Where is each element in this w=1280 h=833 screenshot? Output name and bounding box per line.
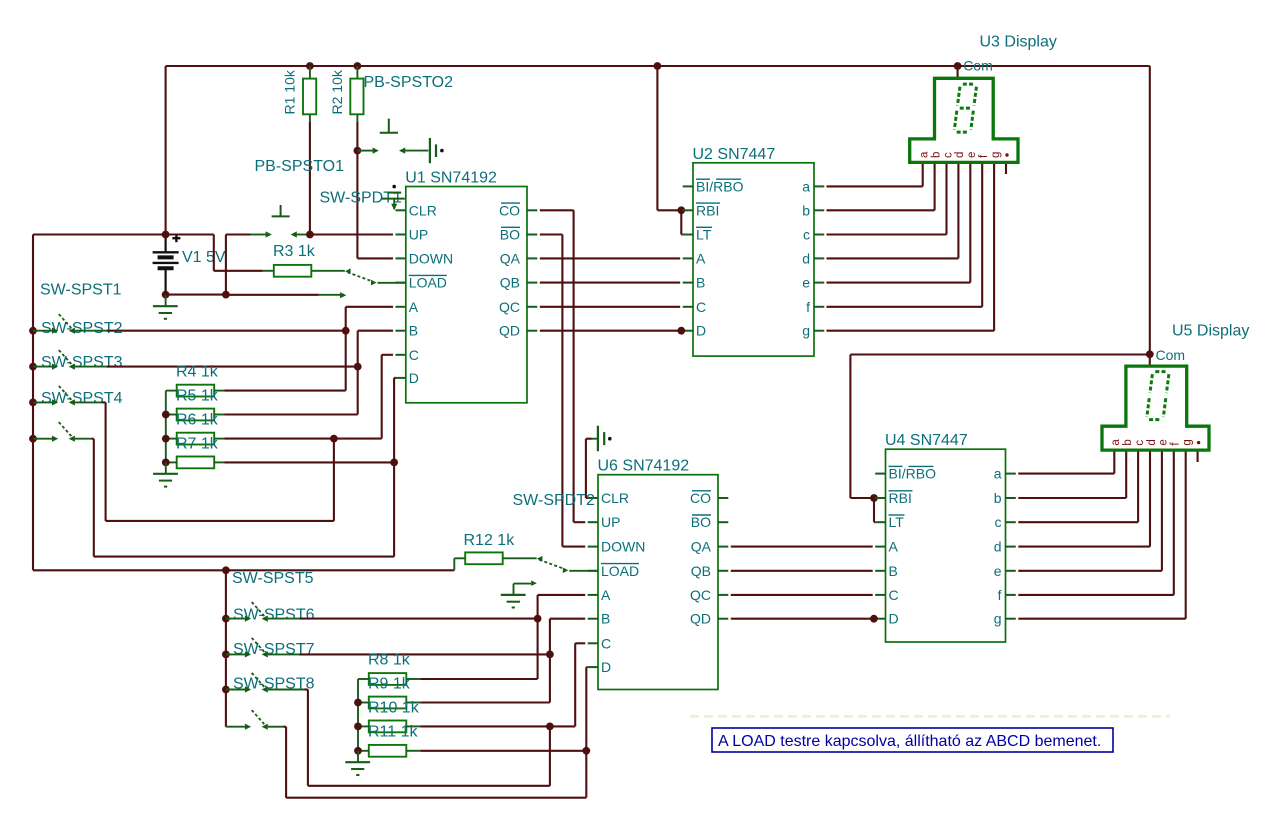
svg-text:b: b [930, 152, 942, 158]
U1 pin QA (right) [527, 257, 537, 259]
ground symbol below R11 [357, 751, 359, 762]
resistor R12 1k [453, 558, 455, 570]
node junction R7 left [162, 459, 170, 467]
node junction R1/PB-SPSTO1/UP [306, 231, 314, 239]
node junction U2-RBI drop/top rail [654, 62, 662, 70]
display U5 dp pin stub [1197, 451, 1199, 462]
U1 pin CO (right) [527, 209, 537, 211]
wire U2 d to display U3 pin d [827, 257, 959, 259]
svg-text:d: d [1146, 439, 1158, 445]
svg-text:f: f [998, 587, 1002, 603]
svg-text:SW-SPST5: SW-SPST5 [232, 570, 314, 587]
wire +5V top rail [166, 65, 1150, 67]
U4 pin c (right) [1006, 521, 1016, 523]
resistor R2 10k [356, 66, 358, 79]
svg-text:QC: QC [690, 587, 711, 603]
svg-text:C: C [409, 347, 419, 363]
wire lower switch bus [225, 570, 227, 726]
resistor R6 1k [177, 433, 215, 445]
ground symbol below R7 [165, 462, 167, 473]
svg-text:R9 1k: R9 1k [368, 675, 411, 692]
wire node B to U1 B [357, 331, 359, 367]
resistor R5 1k [177, 409, 215, 421]
svg-text:QC: QC [499, 299, 520, 315]
svg-text:B: B [601, 611, 610, 627]
svg-text:R4 1k: R4 1k [176, 364, 219, 381]
U2 pin a (right) [814, 185, 824, 187]
U6 pin UP (left) [588, 521, 598, 523]
resistor R11 1k [369, 745, 407, 757]
svg-text:CLR: CLR [409, 202, 437, 218]
U1 pin DOWN (left) [396, 257, 406, 259]
svg-text:d: d [802, 250, 810, 266]
switch SW-SPST4 [29, 435, 37, 443]
U6 pin DOWN (left) [588, 546, 598, 548]
svg-text:CO: CO [499, 202, 520, 218]
wire R1 to UP node [309, 122, 311, 232]
node D2 junction (SPST8/R11) [582, 747, 590, 755]
U6 pin QD (right) [718, 618, 728, 620]
highlight band above note [690, 715, 1170, 718]
wire node A to U1 A [345, 307, 347, 331]
svg-text:c: c [942, 152, 954, 158]
U1 pin A (left) [396, 306, 406, 308]
svg-text:R3 1k: R3 1k [273, 243, 316, 260]
U4 pin g (right) [1006, 618, 1016, 620]
svg-text:U3 Display: U3 Display [980, 34, 1057, 51]
wire U2 f to display U3 pin f [827, 306, 983, 308]
svg-text:R6 1k: R6 1k [176, 412, 219, 429]
svg-text:R5 1k: R5 1k [176, 387, 219, 404]
svg-text:SW-SPST1: SW-SPST1 [40, 282, 122, 299]
wire R8 to node A2 [420, 678, 537, 680]
node junction R11 left [354, 747, 362, 755]
switch arm U6 LOAD (SPDT) [537, 556, 543, 562]
node D junction (SPST4/R7) [390, 459, 398, 467]
node junction lower switch bus [222, 566, 230, 574]
U2 pin RBI (left) [683, 209, 693, 211]
svg-text:UP: UP [409, 227, 428, 243]
wire U4 d to display U5 pin d [1018, 546, 1150, 548]
svg-text:R8 1k: R8 1k [368, 652, 411, 669]
7-seg display U3 outline [910, 78, 1018, 162]
svg-text:a: a [1110, 439, 1122, 446]
node A junction (SPST1/R4/U1-A) [342, 327, 350, 335]
svg-text:DOWN: DOWN [409, 250, 453, 266]
svg-text:g: g [802, 323, 810, 339]
svg-text:Com: Com [963, 58, 993, 74]
svg-text:g: g [990, 152, 1002, 158]
U1 pin LOAD (left) [396, 282, 406, 284]
switch SW-SPST1 [29, 327, 37, 335]
node junction R2/PB-SPSTO2/DOWN [354, 147, 362, 155]
U4 pin LT (left) [875, 521, 885, 523]
wire SW-SPST3 route to node C [102, 401, 106, 403]
svg-text:RBI: RBI [696, 202, 719, 218]
resistor R10 1k [369, 721, 407, 733]
wire R9 to node B2 [420, 701, 550, 703]
wire R7 to node D [225, 461, 392, 463]
U1 pin BO (right) [527, 234, 537, 236]
wire U1 QD to U2 D [540, 330, 680, 332]
wire node C to U1 C [381, 355, 383, 439]
U1 pin CLR (left) [396, 209, 406, 211]
node battery + junction [162, 231, 170, 239]
svg-text:R2 10k: R2 10k [329, 69, 345, 114]
wire battery+ to R3 (down at x=213.8) [166, 233, 214, 235]
wire PB-SPSTO1 to U1 UP [313, 233, 393, 235]
svg-text:R7 1k: R7 1k [176, 435, 219, 452]
node junction R2/top rail [354, 62, 362, 70]
U4 pin d (right) [1006, 546, 1016, 548]
svg-text:g: g [994, 611, 1002, 627]
switch SW-SPDT1 at U1 CLR [392, 185, 396, 189]
U6 pin B (left) [588, 618, 598, 620]
wire U2 c to display U3 pin c [827, 233, 947, 235]
switch SW-SPST8 [226, 726, 245, 728]
U1 pin B (left) [396, 330, 406, 332]
U2 pin f (right) [814, 306, 824, 308]
svg-text:CLR: CLR [601, 490, 629, 506]
switch SW-SPST2 [29, 363, 37, 371]
U1 pin QB (right) [527, 282, 537, 284]
svg-text:A LOAD testre kapcsolva, állít: A LOAD testre kapcsolva, állítható az AB… [718, 733, 1101, 750]
wire R6 to node C [225, 438, 331, 440]
resistor R8 1k [369, 673, 407, 685]
U2 pin B (left) [683, 282, 693, 284]
U2 pin g (right) [814, 330, 824, 332]
svg-text:c: c [1134, 440, 1146, 446]
svg-text:V1 5V: V1 5V [182, 249, 226, 266]
wire U2 b to display U3 pin b [827, 209, 935, 211]
svg-text:a: a [919, 151, 931, 158]
U6 pin LOAD (left) [588, 570, 598, 572]
wire R10 to node C2 [420, 725, 547, 727]
svg-text:f: f [806, 299, 810, 315]
svg-text:a: a [802, 178, 810, 194]
svg-text:UP: UP [601, 514, 620, 530]
svg-text:U1 SN74192: U1 SN74192 [405, 170, 497, 187]
svg-text:D: D [696, 323, 706, 339]
node B junction (SPST2/R5/U1-B) [354, 363, 362, 371]
U6 pin CLR (left) [588, 497, 598, 499]
wire node D2 to U6 D [585, 667, 587, 751]
wire SW-SPST2 to node B [107, 366, 355, 368]
node junction U3 Com [954, 62, 962, 70]
svg-text:D: D [889, 611, 899, 627]
wire U4 g to display U5 pin g [1018, 618, 1185, 620]
wire R4 to node A [225, 390, 346, 392]
wire node C2 to U6 C [574, 643, 576, 726]
node junction U4 RBI [870, 494, 878, 502]
wire node A2 to U6 A [537, 595, 539, 619]
svg-text:PB-SPSTO1: PB-SPSTO1 [255, 158, 345, 175]
svg-text:B: B [696, 275, 705, 291]
U6 pin BO (right) [718, 521, 728, 523]
node junction R9 left [354, 699, 362, 707]
battery V1 5V [165, 235, 167, 253]
svg-text:QB: QB [691, 563, 711, 579]
wire +5V branch to U4 RBI/LT [850, 353, 1149, 355]
svg-text:A: A [889, 539, 899, 555]
node ground rail junction [222, 291, 230, 299]
svg-text:QA: QA [691, 539, 712, 555]
svg-text:D: D [601, 659, 611, 675]
wire U1 QB to U2 B [540, 282, 680, 284]
svg-text:d: d [994, 539, 1002, 555]
ground symbol at battery [165, 295, 167, 307]
wire U2 e to display U3 pin e [827, 282, 971, 284]
svg-text:e: e [994, 563, 1002, 579]
svg-text:e: e [1158, 439, 1170, 445]
push button PB-SPSTO2 [357, 150, 372, 152]
node junction R1/top rail [306, 62, 314, 70]
wire U4 c to display U5 pin c [1018, 521, 1138, 523]
switch SW-SPST6 [222, 651, 230, 659]
wire U3 Com stub [957, 66, 959, 78]
svg-text:e: e [802, 275, 810, 291]
battery + sign [172, 237, 180, 239]
U1 pin D (left) [396, 377, 406, 379]
svg-text:CO: CO [690, 490, 711, 506]
switch arm U1 LOAD (SPDT) [345, 268, 351, 274]
wire SW-SPST6 to node B2 [300, 653, 547, 655]
switch SW-SPST5 [222, 615, 230, 623]
svg-text:LT: LT [889, 514, 905, 530]
node A2 junction (SPST5/R8/U6-A) [534, 615, 542, 623]
wire SW-SPST8 route to node D2 [284, 726, 287, 728]
resistor R4 1k [177, 385, 215, 397]
U1 pin QC (right) [527, 306, 537, 308]
svg-text:SW-SPDT2: SW-SPDT2 [513, 492, 595, 509]
U2 pin A (left) [683, 257, 693, 259]
wire U5 Com stub [1149, 354, 1151, 366]
svg-text:LT: LT [696, 227, 712, 243]
U1 pin C (left) [396, 354, 406, 356]
svg-text:R11 1k: R11 1k [368, 724, 419, 741]
U4 pin f (right) [1006, 594, 1016, 596]
U4 pin A (left) [875, 546, 885, 548]
resistor R3 1k [263, 270, 274, 272]
svg-text:DOWN: DOWN [601, 539, 645, 555]
IC U2 body [693, 163, 814, 356]
wire U6 QA to U4 A [731, 546, 873, 548]
wire U4 e to display U5 pin e [1018, 570, 1162, 572]
svg-text:LOAD: LOAD [409, 275, 447, 291]
U4 pin C (left) [875, 594, 885, 596]
svg-text:BO: BO [691, 514, 711, 530]
ground throw of U6 LOAD switch [514, 583, 532, 585]
svg-text:C: C [696, 299, 706, 315]
svg-text:R12 1k: R12 1k [464, 532, 516, 549]
switch SW-SPST3 [29, 399, 37, 407]
svg-text:b: b [994, 490, 1002, 506]
svg-text:LOAD: LOAD [601, 563, 639, 579]
wire SW-SPST7 route to node C2 [305, 688, 308, 690]
wire U4 a to display U5 pin a [1018, 473, 1114, 475]
svg-text:RBI: RBI [889, 490, 912, 506]
wire battery+ to left bus [33, 233, 166, 235]
svg-text:c: c [995, 514, 1002, 530]
wire U4 f to display U5 pin f [1018, 594, 1174, 596]
svg-text:R10 1k: R10 1k [368, 699, 420, 716]
wire SW-SPST4 route to node D [91, 438, 94, 440]
svg-text:U5 Display: U5 Display [1172, 323, 1249, 340]
svg-text:C: C [889, 587, 899, 603]
svg-text:B: B [889, 563, 898, 579]
U4 pin e (right) [1006, 570, 1016, 572]
svg-text:e: e [966, 152, 978, 158]
svg-text:b: b [1122, 439, 1134, 445]
node junction R5 left [162, 411, 170, 419]
display U5 digit [1155, 370, 1166, 373]
svg-text:QA: QA [500, 250, 521, 266]
wire U1 QA to U2 A [540, 257, 680, 259]
svg-text:C: C [601, 635, 611, 651]
U2 pin BI/RBO (left) [683, 185, 693, 187]
svg-text:D: D [409, 370, 419, 386]
svg-text:U4 SN7447: U4 SN7447 [885, 432, 968, 449]
svg-text:U6 SN74192: U6 SN74192 [598, 458, 690, 475]
svg-text:U2 SN7447: U2 SN7447 [693, 146, 776, 163]
U6 pin C (left) [588, 642, 598, 644]
node junction U2 RBI [677, 206, 685, 214]
U6 pin A (left) [588, 594, 598, 596]
wire R5 to node B [225, 413, 358, 415]
U6 pin CO (right) [718, 497, 728, 499]
wire R2 to PB-SPSTO2 node [356, 122, 358, 151]
node C2 junction (SPST7/R10) [546, 723, 554, 731]
svg-text:c: c [803, 227, 810, 243]
U2 pin LT (left) [683, 234, 693, 236]
U4 pin BI/RBO (left) [875, 473, 885, 475]
wire U2 a to display U3 pin a [827, 185, 923, 187]
wire U6 QD to U4 D [731, 618, 873, 620]
wire U4 b to display U5 pin b [1018, 497, 1126, 499]
wire R11 to node D2 [420, 750, 583, 752]
push button PB-SPSTO1 [251, 234, 266, 236]
wire SW-SPST1 to node A [107, 330, 343, 332]
U2 pin e (right) [814, 282, 824, 284]
7-seg display U5 outline [1102, 366, 1209, 450]
svg-text:QD: QD [690, 611, 711, 627]
U2 pin c (right) [814, 234, 824, 236]
wire node D to U1 D [393, 378, 395, 463]
note box [712, 728, 1113, 752]
U1 pin QD (right) [527, 330, 537, 332]
U4 pin RBI (left) [875, 497, 885, 499]
svg-text:b: b [802, 202, 810, 218]
IC U6 body [598, 475, 718, 690]
U1 pin UP (left) [396, 234, 406, 236]
wire U1 QC to U2 C [540, 306, 680, 308]
svg-text:d: d [954, 152, 966, 158]
wire node B2 to U6 B [549, 619, 551, 655]
wire R4-R7 common left leg [166, 390, 177, 392]
node B2 junction (SPST6/R9/U6-B) [546, 651, 554, 659]
U6 pin D (left) [588, 666, 598, 668]
display U3 digit [963, 83, 974, 86]
U2 pin D (left) [683, 330, 693, 332]
wire R2 node to U1 DOWN [356, 151, 358, 259]
U4 pin B (left) [875, 570, 885, 572]
node junction U5 Com [1146, 350, 1154, 358]
wire U1 BO to U6 DOWN [540, 233, 563, 235]
svg-text:A: A [601, 587, 611, 603]
IC U4 body [886, 449, 1006, 642]
wire bottom +5V feed (left bus to R12) [33, 569, 226, 571]
U4 pin D (left) [875, 618, 885, 620]
svg-text:QD: QD [499, 323, 520, 339]
node C junction (SPST3/R6) [330, 435, 338, 443]
wire U2 RBI to LT [680, 210, 682, 234]
wire U1 CO to U6 UP [540, 209, 574, 211]
node U4 D pin [870, 615, 878, 623]
wire U4 RBI to LT [873, 498, 875, 522]
wire R8-R11 common left leg [358, 678, 369, 680]
wire +5V drop to battery + [165, 66, 167, 235]
svg-text:PB-SPSTO2: PB-SPSTO2 [364, 74, 454, 91]
node junction R10 left [354, 723, 362, 731]
svg-text:BI/RBO: BI/RBO [889, 466, 937, 482]
node U2 D pin [677, 327, 685, 335]
wire drop to U2 RBI [656, 66, 658, 210]
svg-text:BI/RBO: BI/RBO [696, 178, 744, 194]
wire U6 QC to U4 C [731, 594, 873, 596]
wire ground rail to PB-SPSTO1 riser [166, 294, 226, 296]
U2 pin b (right) [814, 209, 824, 211]
display U3 dp pin stub [1005, 164, 1007, 175]
svg-text:R1 10k: R1 10k [282, 69, 298, 114]
U4 pin a (right) [1006, 473, 1016, 475]
node junction R6 left [162, 435, 170, 443]
IC U1 body [406, 187, 527, 403]
svg-text:B: B [409, 323, 418, 339]
wire SW-SPST5 to node A2 [300, 618, 535, 620]
U6 pin QB (right) [718, 570, 728, 572]
wire left bus (battery+ to switches) [32, 235, 34, 571]
wire ground rail open throw of LOAD switch [226, 294, 319, 296]
resistor R7 1k [177, 457, 215, 469]
U2 pin C (left) [683, 306, 693, 308]
resistor R9 1k [369, 697, 407, 709]
svg-text:g: g [1182, 439, 1194, 445]
svg-text:Com: Com [1156, 347, 1186, 363]
svg-text:QB: QB [500, 275, 520, 291]
resistor R1 10k [309, 66, 311, 79]
node battery - junction [162, 291, 170, 299]
wire U6 QB to U4 B [731, 570, 873, 572]
svg-text:A: A [409, 299, 419, 315]
wire U2 g to display U3 pin g [827, 330, 995, 332]
wire +5V rail right drop to U5 Com [1149, 66, 1151, 354]
switch SW-SPDT2 at U6 CLR [597, 426, 599, 452]
U4 pin b (right) [1006, 497, 1016, 499]
svg-text:A: A [696, 250, 706, 266]
svg-text:BO: BO [500, 227, 520, 243]
U6 pin QC (right) [718, 594, 728, 596]
U2 pin d (right) [814, 257, 824, 259]
switch SW-SPST7 [222, 686, 230, 694]
U6 pin QA (right) [718, 546, 728, 548]
svg-text:a: a [994, 466, 1002, 482]
